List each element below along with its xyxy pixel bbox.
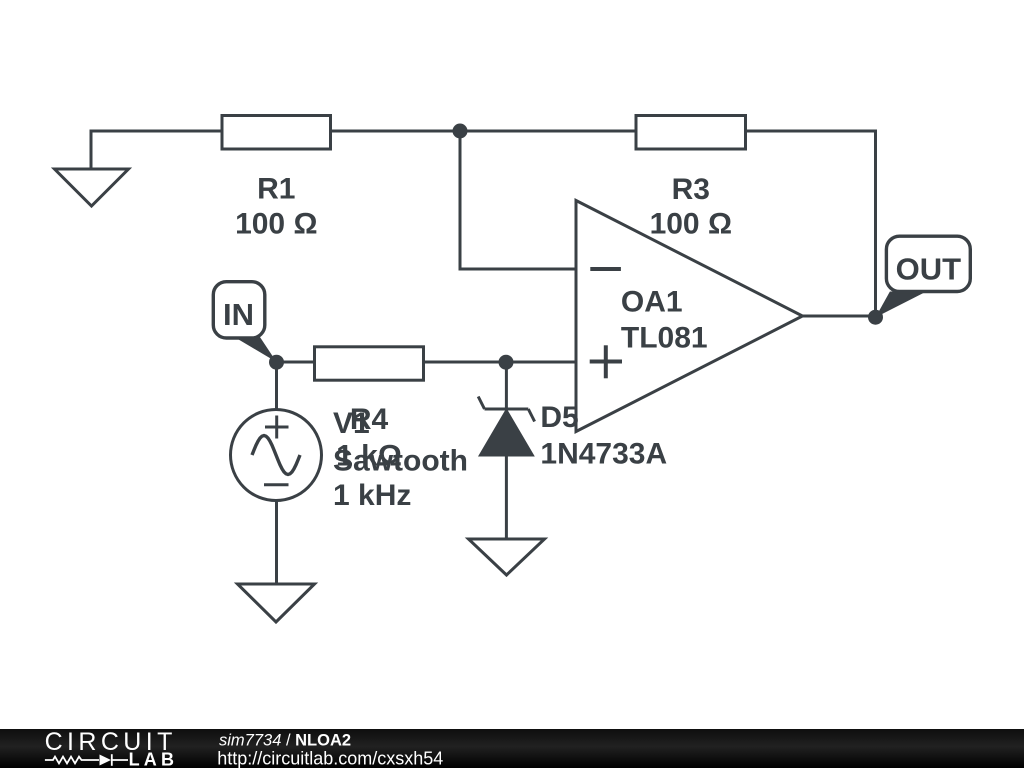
svg-text:OA1: OA1 [621, 285, 683, 318]
svg-text:Sawtooth: Sawtooth [333, 444, 468, 477]
svg-text:1 kHz: 1 kHz [333, 479, 411, 512]
svg-text:D5: D5 [540, 401, 578, 434]
svg-text:1N4733A: 1N4733A [540, 438, 667, 471]
svg-text:100 Ω: 100 Ω [650, 208, 732, 241]
svg-text:OUT: OUT [896, 252, 962, 287]
svg-text:sim7734 / NLOA2: sim7734 / NLOA2 [219, 732, 351, 750]
svg-text:TL081: TL081 [621, 322, 708, 355]
svg-text:R1: R1 [257, 172, 295, 205]
svg-text:IN: IN [223, 297, 254, 332]
svg-text:R3: R3 [672, 173, 710, 206]
svg-text:100 Ω: 100 Ω [235, 208, 317, 241]
svg-text:LAB: LAB [129, 750, 179, 768]
svg-text:V1: V1 [333, 407, 370, 440]
svg-text:http://circuitlab.com/cxsxh54: http://circuitlab.com/cxsxh54 [217, 749, 443, 768]
